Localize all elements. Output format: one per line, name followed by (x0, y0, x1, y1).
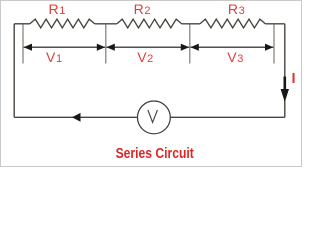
node tick D (right) (273, 24, 275, 63)
wire: left vertical branch (13, 24, 15, 118)
voltage arrow V2 (106, 44, 189, 51)
wire: right vertical branch (284, 24, 286, 118)
resistor R1 (30, 19, 95, 28)
svg-text:Series Circuit: Series Circuit (116, 146, 194, 162)
voltage arrow V3 (190, 44, 273, 51)
current direction arrowhead on bottom wire (72, 113, 81, 122)
svg-text:I: I (292, 71, 296, 87)
node tick C (189, 24, 191, 63)
wire: bottom bus, source to left corner (14, 116, 137, 118)
wire: bottom bus, right corner to source (170, 116, 284, 118)
voltage arrow V1 (24, 44, 106, 51)
wire: top bus, R3 to top-right corner (265, 23, 285, 25)
voltage source V (circle) (138, 101, 171, 134)
wire: top bus, R1 to node B (95, 23, 117, 25)
resistor R2 (117, 19, 182, 28)
resistor R3 (200, 19, 265, 28)
wire: top bus, R2 to node C (182, 23, 200, 25)
current arrow I on right branch (281, 77, 289, 103)
voltage source letter V (148, 110, 158, 122)
wire: top bus, corner to R1 (14, 23, 30, 25)
node tick B (105, 24, 107, 63)
node tick A (left) (22, 24, 24, 63)
